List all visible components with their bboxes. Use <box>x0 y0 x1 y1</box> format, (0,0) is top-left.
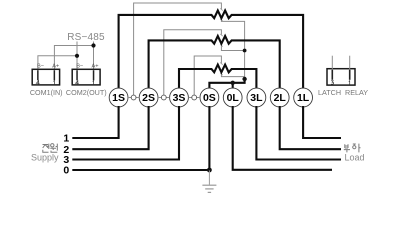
wire: supply line 2 to 2S <box>72 106 148 149</box>
coil 3 tap hook marks <box>220 63 222 76</box>
voltage link circle 3 <box>192 95 197 100</box>
svg-text:1S: 1S <box>112 92 125 104</box>
svg-text:LATCH RELAY: LATCH RELAY <box>318 88 368 97</box>
terminal 1L <box>294 88 313 107</box>
wire: phase 2 with current coil, 2S to 2L <box>149 36 280 89</box>
wire: relay pin lead left <box>331 56 333 69</box>
wire: RS-485 A+ bus COM1 to COM2 <box>54 46 93 70</box>
junction dot coil common on bridge <box>242 77 246 81</box>
pin 3 of relay <box>332 70 334 80</box>
svg-text:0L: 0L <box>227 92 240 104</box>
label Korean jeon-won (power source) <box>43 144 58 153</box>
wire: supply line 3 to 3S <box>72 106 179 160</box>
wire: 0L upper stub <box>232 83 234 89</box>
connector COM1 box <box>32 69 59 85</box>
link tick 3S-0S <box>188 97 200 99</box>
label Korean bu-ha (load) <box>344 144 361 153</box>
svg-text:RS−485: RS−485 <box>67 32 105 43</box>
terminal 1S <box>109 88 128 107</box>
svg-text:A+: A+ <box>52 63 59 69</box>
junction dot neutral at 0S <box>207 168 212 173</box>
pin 1 of COM1 <box>54 70 56 80</box>
voltage link circle 2 <box>161 95 166 100</box>
terminal 0L <box>223 88 242 107</box>
junction dot 0L on bridge <box>231 81 235 85</box>
wire: load line 0L <box>233 106 332 170</box>
wire: load line 3L <box>256 106 341 160</box>
svg-text:2S: 2S <box>142 92 155 104</box>
svg-text:A+: A+ <box>92 63 99 69</box>
connector COM2 box <box>72 69 100 85</box>
terminal 0S <box>200 88 219 107</box>
coil 1 tap hook marks <box>220 8 222 21</box>
wire: voltage tap phase 3 upper run <box>194 56 221 96</box>
svg-text:B−: B− <box>37 63 44 69</box>
wire: phase 3 with current coil, 3S to 3L <box>179 65 256 89</box>
wire: relay pin lead right <box>349 56 351 69</box>
wire: RS-485 leader left <box>76 42 78 56</box>
ground <box>202 185 216 192</box>
wire: voltage tap phase 1 lower run to common <box>221 20 244 79</box>
svg-text:3S: 3S <box>173 92 186 104</box>
terminal 2S <box>139 88 158 107</box>
wire: voltage tap phase 2 lower run <box>221 45 244 50</box>
svg-text:3L: 3L <box>250 92 263 104</box>
junction dot on A+ bus <box>91 43 95 47</box>
wire: load line 2L <box>280 106 341 149</box>
wire: RS-485 B- bus COM1 to COM2 <box>38 56 77 70</box>
pin 1 of relay <box>349 70 351 80</box>
junction dot on B- bus <box>75 54 79 58</box>
wire: voltage tap phase 1 upper run <box>134 3 222 96</box>
terminal 2L <box>270 88 289 107</box>
wire: phase 1 with current coil, 1S to 1L <box>119 11 304 90</box>
junction dot tap2 on common line <box>243 49 247 53</box>
svg-text:COM2(OUT): COM2(OUT) <box>66 88 107 97</box>
voltage link circle 1 <box>131 95 136 100</box>
svg-text:Load: Load <box>345 153 365 163</box>
link tick 2S-3S <box>158 97 170 99</box>
wire: neutral bridge 0S to 0L and coil common <box>209 79 244 90</box>
svg-text:COM1(IN): COM1(IN) <box>30 88 63 97</box>
svg-text:1L: 1L <box>297 92 310 104</box>
pin 4 of COM2 <box>76 70 78 80</box>
terminal 3L <box>247 88 266 107</box>
coil 2 tap hook marks <box>220 34 222 47</box>
svg-text:B−: B− <box>76 63 83 69</box>
wire: voltage tap phase 3 lower run <box>221 74 244 77</box>
svg-text:2L: 2L <box>274 92 287 104</box>
terminal 3S <box>170 88 189 107</box>
link tick 1S-2S <box>128 97 139 99</box>
wire: supply line 1 to 1S <box>72 106 118 138</box>
pin 4 of COM1 <box>37 70 39 80</box>
wire: supply neutral 0 to 0S <box>72 169 209 171</box>
connector LATCH RELAY box <box>327 69 355 85</box>
wire: voltage tap phase 2 upper run <box>164 30 222 96</box>
pin 1 of COM2 <box>93 70 95 80</box>
wire: 0S lower stub <box>208 106 210 170</box>
wire: ground lead <box>208 170 210 184</box>
svg-text:0: 0 <box>63 165 69 177</box>
svg-text:0S: 0S <box>203 92 216 104</box>
wire: load line 1L <box>303 106 341 138</box>
svg-text:1: 1 <box>63 133 69 145</box>
svg-text:Supply: Supply <box>31 153 59 163</box>
wire: RS-485 leader right <box>93 42 95 46</box>
